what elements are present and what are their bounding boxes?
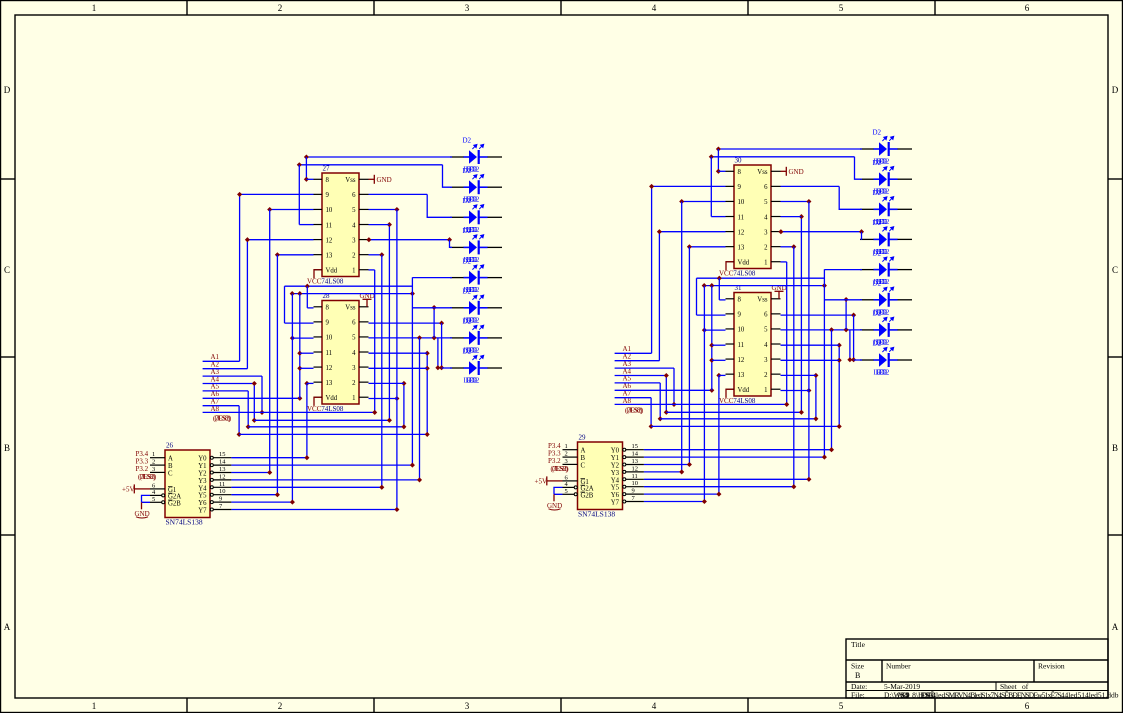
- svg-text:1: 1: [764, 260, 767, 267]
- wire: [285, 285, 413, 287]
- LED D2 #2 (left) triangle: [469, 180, 477, 194]
- wire: [781, 344, 840, 346]
- IC 27 pin 3 (right): [359, 239, 369, 241]
- wire: [666, 411, 801, 413]
- LED D2 #7 (left) value text (garbled): [464, 346, 480, 354]
- svg-text:13: 13: [219, 466, 226, 473]
- LED D2 #7 (right) emission arrows: [882, 317, 893, 322]
- junction: [304, 455, 309, 460]
- svg-text:Vdd: Vdd: [326, 395, 338, 402]
- junction: [297, 162, 302, 167]
- wire: [203, 360, 240, 362]
- svg-text:12: 12: [326, 365, 333, 372]
- wire: [307, 307, 313, 309]
- junction: [799, 410, 804, 415]
- wire: [253, 384, 255, 421]
- IC 29 pin Y7 (right): [626, 501, 644, 503]
- IC 27 pin 6 (right): [359, 193, 369, 195]
- wire: [441, 323, 443, 368]
- junction: [245, 237, 250, 242]
- IC 26 pin Y6 bubble: [210, 501, 213, 504]
- LED D2 #4 (right) leads: [860, 238, 912, 240]
- border column tick bottom: [373, 698, 375, 713]
- wire: [270, 209, 314, 211]
- junction: [304, 154, 309, 159]
- IC 29 pin Y1 (right): [626, 456, 644, 458]
- LED D2 #8 (right) pin stubs: [874, 359, 898, 361]
- GND power port symbol (26): [135, 510, 150, 518]
- junction: [417, 477, 422, 482]
- wire W2 drop to LED2: [855, 157, 863, 179]
- junction: [664, 373, 669, 378]
- IC 31 pin 9 (left): [726, 313, 735, 315]
- wire: [369, 398, 397, 400]
- IC 31 VCC power port wire: [726, 389, 734, 398]
- IC 26 pin Y5 bubble: [210, 493, 213, 496]
- border row tick left: [0, 534, 15, 536]
- svg-text:6: 6: [1025, 3, 1030, 13]
- border column tick bottom: [934, 698, 936, 713]
- wire: [719, 374, 726, 376]
- svg-text:Y6: Y6: [198, 500, 207, 507]
- svg-text:Y2: Y2: [198, 471, 207, 478]
- svg-text:5: 5: [839, 701, 844, 711]
- junction: [813, 416, 818, 421]
- junction: [709, 283, 714, 288]
- LED D2 #2 (right) triangle: [879, 172, 887, 186]
- IC 30 pin 1 (right): [771, 261, 781, 263]
- IC 26 pin G2B (left): [150, 501, 162, 503]
- wire Y4 (left): [231, 486, 381, 488]
- LED D2 #6 (right) value text (garbled): [874, 308, 890, 316]
- IC 29 pin A (left): [563, 449, 578, 451]
- IC 29 pin Y2 bubble: [623, 463, 626, 466]
- svg-text:6: 6: [1025, 701, 1030, 711]
- svg-text:74LS08: 74LS08: [321, 277, 344, 285]
- svg-text:P3.2: P3.2: [548, 457, 561, 465]
- IC 28 pin 10 (left): [314, 336, 323, 338]
- LED D2 #4 (left) value text (garbled): [464, 256, 480, 264]
- wire Y7 (left): [231, 509, 397, 511]
- IC 27 pin 8 (left): [314, 178, 323, 180]
- svg-text:2: 2: [152, 459, 155, 466]
- wire: [426, 353, 428, 434]
- junction: [822, 283, 827, 288]
- svg-text:3: 3: [565, 458, 568, 465]
- wire: [800, 217, 802, 413]
- LED D2 #8 (left) leads: [450, 367, 502, 369]
- junction: [432, 335, 437, 340]
- junction: [806, 477, 811, 482]
- IC 27 pin 5 (right): [359, 208, 369, 210]
- LED D2 #4 (left) leads: [450, 246, 502, 248]
- wire: [615, 367, 674, 369]
- IC 27 pin 11 (left): [314, 224, 323, 226]
- junction: [297, 291, 302, 296]
- wire pin5 to LED7: [781, 329, 863, 331]
- svg-text:9: 9: [326, 320, 330, 327]
- svg-text:Y3: Y3: [198, 478, 207, 485]
- svg-text:D2: D2: [463, 288, 472, 296]
- svg-text:6: 6: [764, 312, 768, 319]
- title block vline size/number: [881, 660, 883, 682]
- svg-text:1: 1: [352, 395, 355, 402]
- LED D2 #1 (left) value text (garbled): [464, 166, 480, 174]
- LED D2 #3 (right) emission arrows: [882, 197, 893, 202]
- LED D2 #1 (right) pin stubs: [874, 148, 898, 150]
- IC 30 pin 8 (left): [726, 170, 735, 172]
- IC 31 pin Vss (right): [771, 298, 781, 300]
- IC 29 pin Y6 bubble: [623, 493, 626, 496]
- wire: [711, 216, 725, 218]
- wire Y4 riser (right): [808, 202, 810, 480]
- junction: [366, 237, 371, 242]
- svg-text:Y1: Y1: [198, 463, 206, 470]
- svg-text:2: 2: [764, 244, 768, 251]
- IC 28 pin 5 (right): [359, 336, 369, 338]
- svg-text:8: 8: [738, 297, 742, 304]
- wire to LED6: [824, 299, 862, 301]
- wire: [781, 246, 794, 248]
- wire: [781, 231, 862, 233]
- IC 30 pin 4 (right): [771, 216, 781, 218]
- wire Y2 riser (left): [269, 210, 271, 473]
- wire: [717, 149, 719, 171]
- wire: [300, 352, 314, 354]
- wire: [284, 286, 286, 323]
- LED D2 #5 (left) leads: [450, 277, 502, 279]
- wire to LED8: [442, 367, 452, 369]
- wire: [696, 278, 698, 315]
- IC 26 pin Y2 bubble: [210, 471, 213, 474]
- svg-text:9: 9: [326, 192, 330, 199]
- LED D2 #5 (right) pin stubs: [874, 269, 898, 271]
- LED D2 #4 (right) triangle: [879, 233, 887, 247]
- border row tick right: [1108, 534, 1123, 536]
- IC 30 pin 6 (right): [771, 185, 781, 187]
- svg-text:1: 1: [92, 3, 97, 13]
- junction: [305, 284, 310, 289]
- svg-text:4led514led51.ddb: 4led514led51.ddb: [1065, 691, 1119, 700]
- wire pin6 to LED3: [427, 194, 452, 217]
- IC 29 pin B (left): [563, 456, 578, 458]
- IC 26 pin Y6 (right): [214, 501, 232, 503]
- svg-text:C: C: [4, 265, 10, 275]
- wire: [299, 294, 301, 399]
- wire Y2 riser (right): [688, 247, 690, 465]
- wire: [306, 178, 313, 180]
- svg-text:P3.2: P3.2: [136, 465, 149, 473]
- +5V power port bar (29): [546, 476, 548, 485]
- wire: [248, 426, 404, 428]
- LED D2 #7 (right) triangle: [879, 323, 887, 337]
- svg-text:SN74LS138: SN74LS138: [166, 518, 203, 527]
- junction: [290, 500, 295, 505]
- svg-text:+5V: +5V: [122, 485, 135, 493]
- svg-text:12: 12: [219, 473, 226, 480]
- IC 28 pin 6 (right): [359, 321, 369, 323]
- svg-text:G2B: G2B: [168, 500, 181, 507]
- junction: [267, 207, 272, 212]
- LED D2 #7 (left) cathode bar: [478, 331, 480, 345]
- junction: [649, 424, 654, 429]
- IC 26 body: [165, 450, 210, 518]
- title block vline date/sheet: [995, 682, 997, 691]
- GND power port symbol (29): [547, 502, 562, 510]
- svg-text:D:\WƝSSC499I8\HEĐSSEEĒ04ledSM: D:\WƝSSC499I8\HEĐSSEEĒ04ledSMRVƝ4BledS1…: [884, 691, 1065, 700]
- wire: [660, 418, 816, 420]
- LED D2 #1 (right) value text (garbled): [874, 158, 890, 166]
- svg-text:11: 11: [738, 214, 745, 221]
- junction: [297, 351, 302, 356]
- junction: [844, 327, 849, 332]
- svg-text:D2: D2: [873, 340, 882, 348]
- svg-text:2: 2: [278, 701, 283, 711]
- wire: [849, 330, 851, 360]
- IC 31 pin 4 (right): [771, 343, 781, 345]
- IC 30 pin 5 (right): [771, 200, 781, 202]
- IC 30 pin 13 (left): [726, 246, 735, 248]
- IC 26 pin G2B overbar: [168, 499, 173, 501]
- IC 29 pin Y6 (right): [626, 493, 644, 495]
- LED D2 #1 (left) leads: [450, 156, 502, 158]
- IC 30 pin 3 (right): [771, 231, 781, 233]
- svg-text:8: 8: [326, 305, 330, 312]
- wire Y3 (right): [644, 471, 682, 473]
- LED D2 #3 (left) value text (garbled): [464, 226, 480, 234]
- IC 28 pin 8 (left): [314, 306, 323, 308]
- garbled net label below A8 (right): [625, 407, 644, 415]
- wire Y3 riser (left): [419, 338, 421, 480]
- LED D2 #6 (right) triangle: [879, 293, 887, 307]
- LED D2 #4 (right) value text (garbled): [874, 248, 890, 256]
- LED D2 #7 (left) pin stubs: [464, 337, 488, 339]
- svg-text:13: 13: [738, 244, 745, 251]
- wire: [374, 270, 376, 413]
- garbled net label below A8 (left): [213, 415, 232, 423]
- wire: [781, 201, 809, 203]
- LED D2 #7 (right) value text (garbled): [874, 338, 890, 346]
- junction: [387, 418, 392, 423]
- wire Y1 riser (right): [823, 269, 825, 457]
- svg-text:2: 2: [352, 380, 356, 387]
- IC 26 pin Y4 bubble: [210, 486, 213, 489]
- border row tick left: [0, 356, 15, 358]
- LED D2 #3 (left) emission arrows: [472, 205, 483, 210]
- wire: [710, 157, 712, 217]
- wire: [615, 397, 652, 399]
- wire: [240, 193, 314, 195]
- wire: [689, 246, 725, 248]
- LED D2 #5 (right) emission arrows: [882, 257, 893, 262]
- svg-text:Title: Title: [851, 640, 866, 649]
- svg-text:11: 11: [738, 342, 745, 349]
- junction: [716, 373, 721, 378]
- wire: [305, 157, 307, 179]
- IC 29 pin G2A overbar: [581, 484, 586, 486]
- junction: [784, 402, 789, 407]
- svg-text:2: 2: [565, 451, 568, 458]
- LED D2 #5 (right) value text (garbled): [874, 278, 890, 286]
- svg-text:(JES2): (JES2): [215, 415, 232, 423]
- IC 26 pin Y5 (right): [214, 494, 232, 496]
- svg-text:D2: D2: [463, 348, 472, 356]
- svg-text:6: 6: [352, 192, 356, 199]
- svg-text:D2: D2: [463, 318, 472, 326]
- LED D2 #5 (left) triangle: [469, 271, 477, 285]
- wire: [203, 383, 255, 385]
- svg-text:9: 9: [632, 488, 635, 495]
- title block line under Title: [846, 659, 1108, 661]
- svg-text:B: B: [1112, 443, 1118, 453]
- IC 29 pin Y2 (right): [626, 464, 644, 466]
- wire G2A/G2B tie (29): [554, 487, 563, 494]
- IC 29 pin G1 (left): [563, 480, 578, 482]
- wire to LED6: [412, 307, 452, 309]
- junction: [657, 229, 662, 234]
- wire: [697, 314, 726, 316]
- LED D2 #3 (left) leads: [450, 216, 502, 218]
- junction: [401, 381, 406, 386]
- svg-text:9: 9: [738, 184, 742, 191]
- IC 29 pin Y4 (right): [626, 478, 644, 480]
- svg-text:D2: D2: [873, 159, 882, 167]
- svg-text:Y7: Y7: [198, 508, 207, 515]
- IC 29 pin G2A (left): [563, 486, 575, 488]
- IC 28 pin 2 (right): [359, 381, 369, 383]
- wire: [203, 397, 300, 399]
- IC 26 pin G2B bubble: [162, 501, 165, 504]
- wire: [673, 368, 675, 404]
- svg-text:(JES2): (JES2): [140, 473, 157, 481]
- LED D2 #4 (left) pin stubs: [464, 246, 488, 248]
- IC 27 pin 10 (left): [314, 208, 323, 210]
- svg-text:(JES2): (JES2): [627, 407, 644, 415]
- svg-text:15: 15: [219, 451, 226, 458]
- junction: [237, 192, 242, 197]
- svg-text:74LS08: 74LS08: [733, 269, 756, 277]
- junction: [709, 358, 714, 363]
- wire Y5 riser (right): [793, 247, 795, 487]
- svg-text:5: 5: [764, 327, 768, 334]
- svg-text:D2: D2: [873, 310, 882, 318]
- svg-text:Y6: Y6: [611, 492, 620, 499]
- junction: [410, 291, 415, 296]
- wire: [658, 232, 660, 361]
- wire: [203, 405, 240, 407]
- wire W2: [711, 156, 854, 158]
- border row tick left: [0, 178, 15, 180]
- LED D2 #4 (right) pin stubs: [874, 238, 898, 240]
- LED D2 #3 (right) triangle: [879, 203, 887, 217]
- IC 26 pin G2A (left): [150, 494, 162, 496]
- svg-text:C: C: [581, 462, 586, 469]
- wire: [300, 367, 314, 369]
- svg-text:4: 4: [352, 222, 356, 229]
- svg-text:27: 27: [323, 165, 331, 173]
- wire: [369, 254, 382, 256]
- IC 26 pin G1 (left): [150, 488, 165, 490]
- svg-text:9: 9: [738, 312, 742, 319]
- wire W2 drop to LED2: [443, 165, 453, 187]
- junction: [275, 252, 280, 257]
- svg-text:4: 4: [764, 342, 768, 349]
- svg-text:Y3: Y3: [611, 470, 620, 477]
- wire to LED5: [824, 269, 862, 271]
- wire W2: [299, 164, 442, 166]
- GND power port wire (29): [553, 494, 555, 501]
- svg-text:13: 13: [632, 458, 639, 465]
- junction: [425, 351, 430, 356]
- svg-text:1: 1: [565, 443, 568, 450]
- wire pin3 to LED4: [861, 232, 864, 240]
- LED D2 #8 (left) triangle: [469, 361, 477, 375]
- svg-text:1: 1: [352, 268, 355, 275]
- junction: [237, 432, 242, 437]
- IC 28 pin 13 (left): [314, 381, 323, 383]
- IC 26 pin Y3 bubble: [210, 478, 213, 481]
- svg-text:Y1: Y1: [611, 455, 619, 462]
- svg-text:A: A: [168, 456, 173, 463]
- wire Y6 (left): [231, 501, 292, 503]
- svg-text:D2: D2: [873, 249, 882, 257]
- junction: [394, 207, 399, 212]
- svg-text:Y0: Y0: [611, 448, 620, 455]
- svg-text:LED2: LED2: [876, 369, 890, 377]
- svg-text:12: 12: [326, 237, 333, 244]
- junction: [702, 499, 707, 504]
- IC 26 pin Y7 (right): [214, 509, 232, 511]
- junction: [252, 381, 257, 386]
- LED D2 #7 (right) cathode bar: [888, 323, 890, 337]
- wire W1 to LED1: [306, 156, 452, 158]
- wire: [369, 193, 428, 195]
- wire: [781, 374, 816, 376]
- svg-text:Vdd: Vdd: [738, 387, 750, 394]
- LED D2 #5 (left) value text (garbled): [464, 286, 480, 294]
- wire Y4 riser (left): [381, 255, 383, 487]
- wire Y6 (right): [644, 493, 719, 495]
- border column tick bottom: [186, 698, 188, 713]
- svg-text:5: 5: [764, 199, 768, 206]
- IC 26 pin Y1 bubble: [210, 464, 213, 467]
- IC 27 pin 9 (left): [314, 193, 323, 195]
- IC 27 pin 1 (right): [359, 269, 369, 271]
- svg-text:29: 29: [579, 434, 587, 442]
- svg-text:26: 26: [166, 442, 174, 450]
- junction: [410, 463, 415, 468]
- LED D2 #3 (right) leads: [860, 208, 912, 210]
- wire: [247, 391, 249, 427]
- svg-text:VCC: VCC: [307, 277, 322, 285]
- LED D2 #8 (right) emission arrows: [882, 347, 893, 352]
- wire Y6 riser (left): [291, 294, 293, 503]
- LED D2 #1 (right) leads: [860, 148, 912, 150]
- wire: [781, 261, 787, 263]
- junction: [679, 199, 684, 204]
- IC 28 pin 4 (right): [359, 351, 369, 353]
- junction: [649, 184, 654, 189]
- svg-text:3: 3: [152, 466, 155, 473]
- wire: [615, 389, 712, 391]
- wire: [615, 360, 660, 362]
- wire Y5 riser (left): [276, 255, 278, 495]
- wire Y0 (right): [644, 449, 832, 451]
- svg-text:3: 3: [764, 229, 768, 236]
- IC 26 pin A (left): [150, 457, 165, 459]
- svg-text:5: 5: [565, 488, 568, 495]
- junction: [379, 252, 384, 257]
